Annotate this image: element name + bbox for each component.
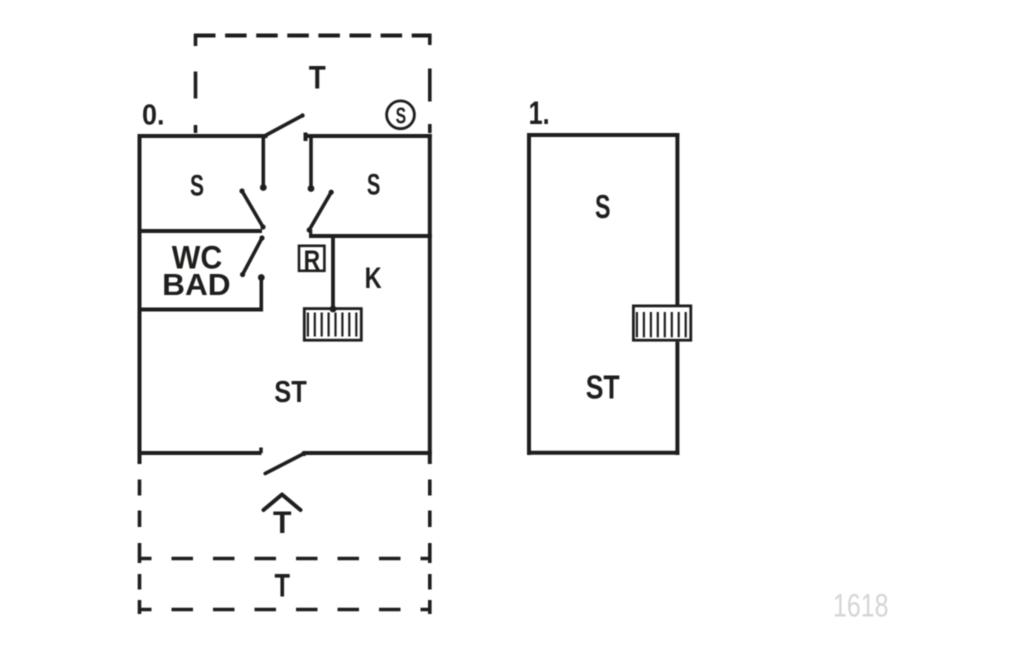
svg-text:S: S (190, 169, 204, 202)
wire bottom wall left segment end tick (259, 448, 263, 454)
dashed middle horizontal (140, 557, 430, 561)
wire hallway left stub (261, 134, 265, 188)
wire plan1 bottom wall (527, 451, 679, 455)
door leaf terrace (264, 116, 303, 137)
node WC door hinge (259, 235, 264, 240)
wire stairs wall (331, 236, 335, 309)
svg-text:0.: 0. (142, 99, 165, 131)
wire left outer wall (138, 134, 142, 464)
terrace dashed left line (194, 34, 198, 133)
wire WC bottom wall (138, 308, 262, 312)
svg-text:T: T (275, 567, 291, 603)
wire plan1 right wall lower (675, 342, 679, 455)
door leaf WC (243, 238, 262, 275)
node stairs wall end (330, 306, 337, 313)
wire plan1 left wall (527, 133, 531, 455)
node left S door hinge (260, 224, 265, 229)
node entrance door hinge (301, 451, 306, 456)
wire S/WC dividing wall (138, 229, 263, 233)
wire kitchen wall end tick (309, 230, 312, 239)
svg-text:ST: ST (274, 374, 307, 409)
node terrace door hinge (261, 134, 266, 139)
entrance arrow chevron (264, 495, 301, 511)
door leaf right S room (309, 192, 331, 230)
dashed lower-left vertical (138, 464, 142, 614)
wire right outer wall (428, 134, 432, 464)
svg-text:T: T (309, 59, 326, 95)
door leaf entrance (265, 454, 304, 474)
svg-text:S: S (396, 103, 407, 129)
door leaf left S room (242, 191, 263, 227)
svg-text:T: T (273, 504, 292, 540)
svg-text:S: S (595, 189, 611, 226)
wire WC east wall stub (259, 278, 263, 312)
wire hallway right stub (309, 134, 313, 189)
node hallway right wall end (308, 185, 315, 192)
dashed lower-right vertical (428, 464, 432, 614)
wire plan1 right wall upper (675, 133, 679, 305)
node terrace door tip (300, 113, 304, 117)
node left S door tip (239, 188, 244, 193)
terrace dashed top line (194, 34, 432, 38)
node hallway left wall end (260, 184, 267, 191)
wire top wall left segment (138, 134, 268, 138)
svg-text:K: K (365, 262, 382, 295)
wire bottom wall right segment (304, 451, 432, 455)
dashed bottom horizontal (140, 608, 430, 612)
node right S door hinge (307, 227, 312, 232)
node WC wall end (258, 274, 265, 281)
wire top wall right segment end tick (304, 133, 308, 142)
svg-text:R: R (304, 245, 321, 276)
svg-text:S: S (367, 169, 381, 202)
svg-text:1618: 1618 (833, 588, 889, 624)
S circle (387, 101, 415, 129)
svg-text:ST: ST (586, 370, 620, 407)
svg-text:BAD: BAD (162, 267, 231, 302)
svg-text:1.: 1. (529, 95, 550, 131)
wire plan1 top wall (527, 133, 679, 137)
R box (299, 246, 324, 271)
stairs right plan (633, 306, 690, 340)
right plan 1. outer walls (527, 133, 679, 455)
node WC door tip (240, 272, 245, 277)
stairs left plan (304, 309, 361, 341)
node right S door tip (329, 190, 334, 195)
wire top wall right segment (304, 134, 432, 138)
wire bottom wall left segment (138, 451, 262, 455)
terrace dashed right line (428, 34, 432, 133)
wire kitchen top wall (309, 234, 432, 238)
